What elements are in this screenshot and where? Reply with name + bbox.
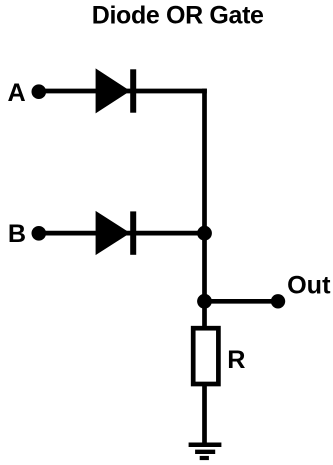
wire vertical bus: [202, 89, 207, 328]
resistor R: [193, 328, 218, 384]
svg-text:Diode OR Gate: Diode OR Gate: [92, 2, 264, 30]
ground: [189, 445, 222, 458]
wire junction to Out terminal: [205, 299, 279, 304]
svg-text:R: R: [227, 346, 245, 374]
junction node 1: [197, 226, 212, 241]
diode D1: [96, 68, 137, 113]
diode D2: [96, 211, 137, 255]
svg-text:Out: Out: [287, 272, 331, 300]
terminal B: [32, 226, 47, 241]
svg-text:B: B: [8, 220, 26, 248]
svg-text:A: A: [8, 79, 26, 107]
terminal Out: [271, 294, 285, 308]
wire B terminal to junction: [39, 231, 205, 236]
wire resistor to ground: [202, 384, 207, 445]
junction node 2: [197, 294, 212, 309]
terminal A: [32, 84, 47, 99]
wire A terminal to node column: [39, 89, 207, 94]
